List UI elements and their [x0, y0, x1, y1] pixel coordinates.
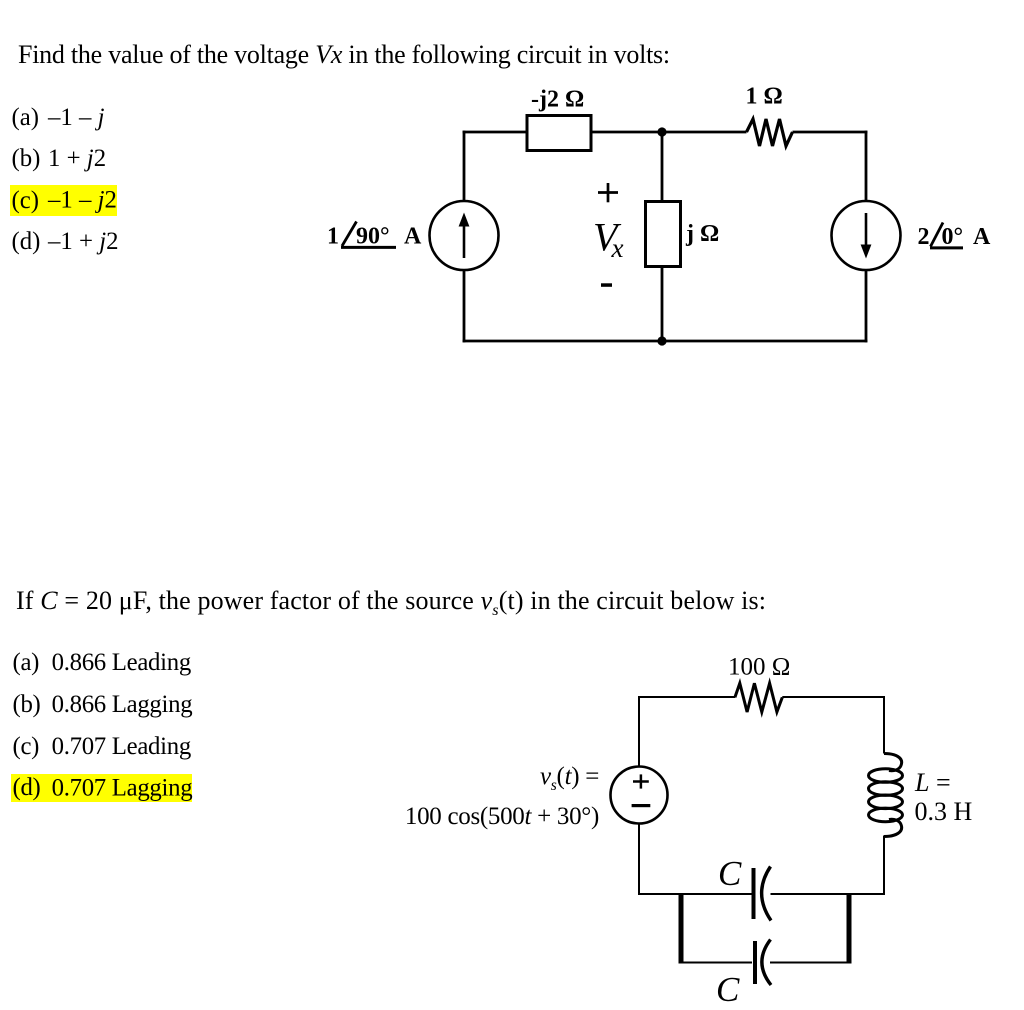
- wire middle vertical lower circuit1: [661, 266, 664, 341]
- underline for 1/90: [341, 246, 396, 249]
- resistor 1 ohm zigzag: [747, 119, 793, 146]
- option (d) q1: [12, 227, 119, 257]
- wire top-right horizontal circuit1: [793, 131, 868, 134]
- current source I2 arrow down: [861, 213, 872, 259]
- wire left vertical lower circuit2: [638, 824, 640, 896]
- angle symbol for 2/0: [931, 223, 944, 247]
- question 1 title: [18, 38, 670, 72]
- svg-text:C: C: [718, 854, 742, 893]
- svg-text:L =: L =: [914, 768, 951, 797]
- current source I2 circle: [832, 201, 901, 270]
- Vx voltage label: [593, 215, 624, 264]
- wire bottom-right horizontal circuit2: [771, 893, 886, 895]
- wire right vertical upper circuit2: [883, 696, 885, 754]
- voltage source plus sign: [633, 774, 649, 788]
- resistor 100 ohm zigzag: [735, 683, 782, 712]
- option (a) q1: [12, 103, 105, 133]
- option (a) q2: [13, 648, 191, 678]
- inductor L coil loop 1: [869, 769, 903, 783]
- svg-text:100 Ω: 100 Ω: [728, 654, 790, 681]
- label 2 angle 0 A: [918, 224, 992, 250]
- capacitor C1 right curved plate: [762, 867, 771, 921]
- inductor L coil loop 4: [869, 808, 903, 822]
- wire right vertical upper circuit1: [865, 131, 868, 202]
- node A top middle junction dot: [657, 127, 666, 136]
- wire bottom horizontal circuit1: [463, 340, 868, 343]
- label 1 angle 90 A: [327, 224, 422, 250]
- inductor L coil loop 2: [869, 782, 903, 796]
- option (c) q2: [13, 732, 191, 762]
- wire lower-branch-left horizontal circuit2: [681, 962, 752, 964]
- node B bottom middle junction dot: [657, 336, 666, 345]
- inductor L coil bottom hook: [884, 819, 902, 836]
- plus sign of Vx: [598, 183, 618, 202]
- wire right vertical lower circuit2: [883, 836, 885, 896]
- right thick stub to lower capacitor branch: [847, 893, 852, 964]
- angle symbol for 1/90: [342, 222, 357, 247]
- option (d) q2 highlighted: [13, 773, 193, 803]
- wire bottom-left horizontal circuit2: [638, 893, 752, 895]
- current source I1 circle: [430, 201, 499, 270]
- wire top-left horizontal circuit2: [638, 696, 735, 698]
- source vs(t) label lines: [405, 761, 599, 833]
- wire top-right horizontal circuit2: [782, 696, 885, 698]
- option (b) q1: [12, 144, 107, 174]
- wire left vertical upper circuit1: [463, 131, 466, 202]
- inductor L coil loop 3: [869, 795, 903, 809]
- option (b) q2: [13, 690, 193, 720]
- svg-text:C: C: [716, 970, 740, 1009]
- wire left vertical upper circuit2: [638, 696, 640, 767]
- svg-text:0.3 H: 0.3 H: [915, 797, 973, 826]
- voltage source minus sign: [632, 804, 651, 807]
- wire left vertical lower circuit1: [463, 270, 466, 343]
- wire top-left horizontal circuit1: [463, 131, 527, 134]
- minus sign of Vx: [601, 283, 612, 287]
- current source I1 arrow up: [459, 213, 470, 259]
- left thick stub to lower capacitor branch: [679, 893, 684, 964]
- capacitor C2 left plate: [753, 941, 757, 984]
- wire middle vertical upper circuit1: [661, 132, 664, 202]
- underline for 2/0: [930, 246, 963, 249]
- inductor j ohm box: [646, 202, 681, 267]
- capacitor -j2 ohm box: [527, 116, 591, 151]
- wire lower-branch-right horizontal circuit2: [770, 962, 849, 964]
- option (c) q1 highlighted: [12, 186, 117, 216]
- capacitor C2 right curved plate: [762, 940, 771, 986]
- wire top-mid horizontal circuit1: [591, 131, 747, 134]
- wire right vertical lower circuit1: [865, 270, 868, 343]
- capacitor C1 left plate: [752, 868, 756, 919]
- voltage source vs circle: [611, 767, 668, 824]
- question 2 title: [16, 584, 766, 628]
- inductor L coil top hook: [884, 754, 902, 771]
